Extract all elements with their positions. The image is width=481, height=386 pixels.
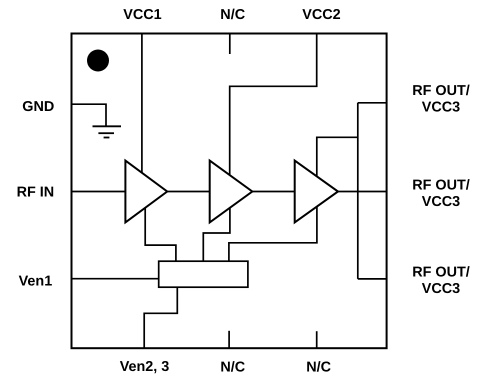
svg-text:VCC1: VCC1 [123, 7, 161, 23]
wire RF OUT/VCC3 pin (bottom right) [358, 278, 387, 280]
svg-text:VCC2: VCC2 [302, 7, 340, 23]
wire RF IN to amplifier A1 input [72, 191, 126, 193]
wire RF OUT/VCC3 pin (top right) [358, 102, 387, 104]
wire VCC3 bus vertical [357, 103, 359, 279]
svg-text:N/C: N/C [220, 360, 245, 376]
op-amp A1 (first gain stage) [125, 161, 167, 223]
pin label RF OUT/VCC3 (top right) [412, 83, 470, 115]
svg-text:VCC3: VCC3 [422, 194, 460, 210]
wire A2 output to A3 input [252, 191, 294, 193]
wire VCC1 pin down to amplifier A1 [141, 34, 143, 174]
wire N/C stub (bottom right) [316, 331, 318, 348]
IC package outline U1 [72, 34, 387, 349]
svg-text:GND: GND [22, 99, 54, 115]
wire N/C stub (top) [229, 34, 231, 55]
op-amp A2 (second gain stage) [210, 161, 253, 223]
wire Ven1 to bias block [72, 278, 159, 280]
wire GND pin into package [72, 104, 107, 126]
pin label RF OUT/VCC3 (middle right) [412, 178, 470, 210]
wire N/C stub (bottom left) [228, 331, 230, 348]
wire VCC2 pin down and over to amplifier A2 [230, 34, 317, 176]
ground symbol [93, 126, 122, 137]
wire bias block to Ven2,3 pin [144, 287, 177, 348]
wire A1 output to A2 input [167, 191, 210, 193]
bias control block [159, 261, 248, 287]
svg-text:RF OUT/: RF OUT/ [412, 83, 470, 99]
svg-text:Ven1: Ven1 [19, 274, 53, 290]
wire A1 bias to bias block [145, 208, 176, 262]
wire VCC3 branch to amplifier A3 [317, 137, 358, 177]
svg-text:VCC3: VCC3 [422, 281, 460, 297]
svg-text:N/C: N/C [220, 7, 245, 23]
svg-text:RF OUT/: RF OUT/ [412, 178, 470, 194]
wire A2 bias to bias block [203, 207, 230, 261]
svg-text:N/C: N/C [306, 360, 331, 376]
svg-text:RF IN: RF IN [17, 185, 55, 201]
pin label RF OUT/VCC3 (bottom right) [412, 265, 470, 297]
wire A3 output to RF OUT/VCC3 pin (middle right) [338, 191, 387, 193]
svg-text:VCC3: VCC3 [422, 99, 460, 115]
op-amp A3 (third gain stage) [295, 161, 338, 223]
pin 1 marker dot [87, 50, 109, 72]
svg-text:RF OUT/: RF OUT/ [412, 265, 470, 281]
wire A3 bias to bias block [229, 206, 317, 261]
svg-text:Ven2, 3: Ven2, 3 [120, 359, 170, 375]
